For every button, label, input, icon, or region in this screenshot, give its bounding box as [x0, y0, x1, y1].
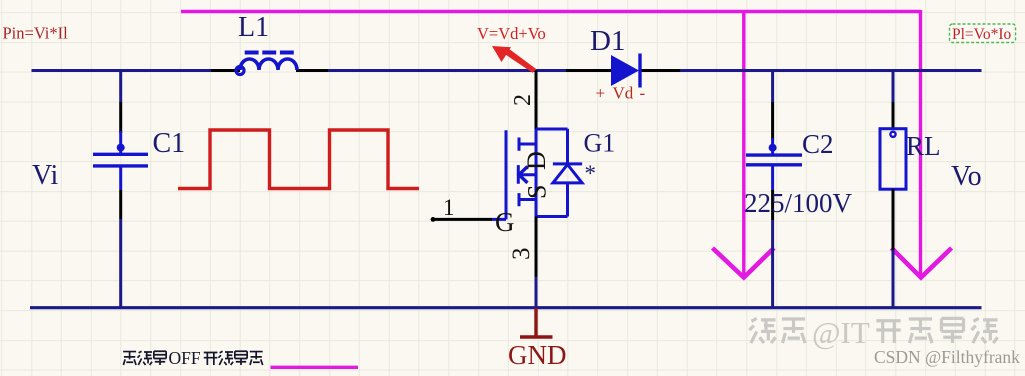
junction: L1 left terminal dot	[236, 67, 244, 75]
diode D1	[611, 55, 639, 86]
capacitor C2 top plate	[746, 153, 802, 156]
wire: RL branch upper navy	[892, 71, 895, 103]
diode: G1 body diode	[553, 129, 582, 217]
pin: C2 top pin wire	[771, 102, 774, 140]
svg-text:*: *	[585, 161, 597, 186]
svg-text:Vo: Vo	[951, 161, 982, 192]
transistor G1 substrate arrow	[519, 167, 528, 183]
svg-text:RL: RL	[906, 131, 941, 161]
wire: source to ground rail navy	[535, 277, 538, 308]
svg-text:S: S	[523, 185, 552, 199]
watermark 知乎 @IT电子笔记	[749, 318, 997, 343]
wire: bottom ground rail	[30, 306, 982, 309]
svg-text:@IT: @IT	[812, 315, 870, 350]
pin: D1 cathode pin wire	[640, 69, 680, 72]
wire: magenta OFF current path top horizontal	[181, 10, 921, 13]
annotation: red arrow to switch node	[503, 49, 537, 73]
wire: magenta OFF path right vertical	[919, 10, 922, 275]
junction: C2 top dot	[769, 144, 777, 152]
svg-text:OFF: OFF	[169, 348, 201, 368]
svg-text:G1: G1	[584, 129, 616, 158]
pin: RL pin 1 circle	[890, 132, 895, 137]
pin: C1 top pin wire	[119, 102, 122, 133]
capacitor C1 top plate	[93, 153, 148, 156]
svg-text:1: 1	[443, 195, 455, 220]
svg-text:Pin=Vi*Il: Pin=Vi*Il	[3, 24, 69, 43]
wire: gate pin 1 wire	[432, 218, 492, 221]
pin: L1 pin 2 wire	[296, 69, 328, 72]
wire: top rail left segment (Vin node)	[32, 69, 212, 72]
wire: magenta legend line	[271, 366, 359, 369]
pin: L1 pin 1 wire	[211, 69, 240, 72]
wire: top rail right segment (Vout node)	[680, 69, 982, 72]
resistor RL body	[880, 129, 906, 190]
svg-text:+Vd-: +Vd-	[596, 84, 646, 103]
wire: C2 bottom blue stub	[771, 165, 774, 190]
svg-text:2: 2	[510, 94, 536, 106]
svg-text:C2: C2	[802, 129, 834, 159]
wire: RL branch lower navy	[892, 250, 895, 308]
capacitor C2 bottom plate	[746, 163, 802, 166]
svg-text:C1: C1	[153, 128, 186, 159]
svg-text:D1: D1	[590, 25, 625, 57]
wire: C2 top blue stub	[771, 138, 774, 154]
inductor L1 core dashed line	[245, 51, 295, 55]
svg-text:Pl=Vo*Io: Pl=Vo*Io	[952, 26, 1012, 43]
wire: C2 branch lower navy	[771, 220, 774, 308]
svg-text:V=Vd+Vo: V=Vd+Vo	[477, 24, 546, 43]
ground GND symbol	[520, 308, 553, 337]
svg-text:GND: GND	[508, 340, 567, 370]
junction: C1 top dot	[117, 144, 125, 152]
inductor L1	[240, 59, 297, 70]
svg-text:225/100V: 225/100V	[744, 188, 853, 218]
junction: gate wire end dot	[431, 217, 436, 222]
arrowhead: magenta current arrow right	[892, 248, 952, 278]
wire: C2 branch upper navy	[771, 71, 774, 103]
svg-text:CSDN @Filthyfrank: CSDN @Filthyfrank	[874, 347, 1020, 367]
svg-text:G: G	[495, 207, 515, 237]
pin: D1 anode pin wire	[566, 69, 611, 72]
wire: top rail middle segment (switch node)	[328, 69, 566, 72]
wire: C1 top blue stub	[119, 131, 122, 153]
capacitor C1 bottom plate	[93, 164, 148, 167]
wire: C1 bottom blue stub	[119, 166, 122, 190]
wire: Vi branch lower	[119, 219, 122, 308]
wire: source branch (node 3) black	[535, 217, 538, 278]
pin: RL top pin wire	[892, 102, 895, 129]
pin: RL bottom pin wire	[892, 189, 895, 250]
pin: C2 bottom pin wire	[771, 190, 774, 220]
svg-text:3: 3	[508, 248, 535, 261]
label Pl=Vo*Io box	[950, 24, 1016, 43]
label 开关管OFF电流路径	[123, 351, 263, 365]
wire: magenta OFF path left vertical	[742, 12, 745, 276]
waveform: red gate drive square wave	[178, 130, 419, 189]
pin: C1 bottom pin wire	[119, 190, 122, 219]
arrowhead: magenta current arrow left	[713, 248, 775, 278]
svg-text:D: D	[522, 151, 551, 170]
transistor Q G1 (MOSFET) body	[492, 129, 568, 219]
wire: Vi branch upper	[119, 71, 122, 103]
svg-text:Vi: Vi	[32, 160, 59, 191]
svg-text:L1: L1	[238, 12, 269, 43]
wire: drain branch (node 2) black	[535, 71, 538, 130]
